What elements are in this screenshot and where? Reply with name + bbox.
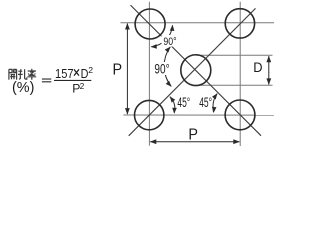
label kaikoritsu kanji: [9, 69, 36, 80]
angle arc 45deg right: [213, 94, 217, 113]
equals sign: [42, 79, 51, 80]
svg-text:D: D: [253, 60, 262, 75]
svg-text:90°: 90°: [154, 62, 169, 77]
fraction bar: [54, 80, 91, 81]
svg-text:P: P: [113, 62, 123, 79]
angle arc 90deg top-left: [151, 25, 172, 46]
svg-text:(%): (%): [12, 80, 34, 96]
hole circle bottom-left: [135, 100, 164, 129]
dimension line P bottom horizontal: [150, 141, 239, 143]
wire horizontal row line bottom: [123, 114, 274, 116]
wire tangent line D bottom: [196, 84, 273, 86]
svg-text:45°: 45°: [199, 95, 212, 110]
wire vertical column line right: [239, 2, 241, 146]
label 90deg center: [153, 62, 172, 75]
label 90deg top: [162, 35, 179, 47]
wire diagonal BL-TR: [129, 8, 256, 135]
dimension line D right vertical: [268, 56, 270, 85]
angle arc 45deg left: [170, 97, 175, 113]
svg-text:2: 2: [88, 65, 93, 75]
svg-text:P: P: [188, 127, 198, 144]
hole circle top-right: [225, 9, 254, 38]
wire tangent line D top: [196, 54, 273, 56]
hole circle center: [181, 55, 211, 86]
svg-text:D: D: [81, 66, 89, 81]
wire diagonal TL-BR: [131, 5, 262, 136]
svg-text:157: 157: [55, 66, 74, 81]
svg-text:45°: 45°: [177, 95, 190, 110]
hole circle top-left: [135, 9, 165, 39]
hole circle bottom-right: [225, 100, 255, 130]
dimension line P left vertical: [126, 24, 128, 115]
wire vertical column line left: [148, 2, 150, 146]
svg-text:90°: 90°: [163, 36, 176, 48]
svg-text:2: 2: [80, 81, 85, 91]
wire horizontal row line top: [121, 22, 275, 24]
angle arc 90deg center: [164, 47, 171, 87]
